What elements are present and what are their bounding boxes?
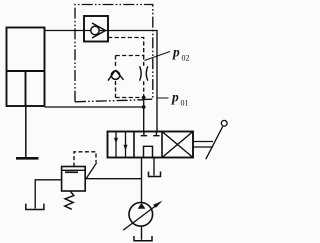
label p01 leader <box>157 97 169 99</box>
wire: relief valve outlet to tank <box>35 180 61 209</box>
pilot-operated check valve body <box>84 16 108 42</box>
pilot line (dashed) from check valve <box>108 38 144 56</box>
lever knob <box>221 120 227 126</box>
center position blocked port B <box>153 132 159 136</box>
directional valve body <box>108 132 194 158</box>
lever arm <box>206 127 223 160</box>
check valve branch line (dashed) <box>115 56 117 98</box>
piston rod <box>25 106 27 158</box>
lever fork <box>193 142 213 148</box>
wire: valve P port to pump <box>141 158 143 204</box>
relief valve inner bar <box>65 171 78 173</box>
wire: cylinder bottom port to node A <box>45 106 144 108</box>
load platform <box>16 157 39 160</box>
relief valve pilot arrow <box>86 163 96 179</box>
wire: valve T port to tank <box>153 158 155 176</box>
wire: relief valve inlet from pump line <box>85 178 141 180</box>
tank T1 <box>149 172 161 177</box>
enclosure bottom edge <box>75 100 144 102</box>
check valve ball <box>91 26 99 34</box>
cylinder body <box>7 28 45 107</box>
check valve C2 ball <box>111 71 119 79</box>
relief valve spring <box>65 191 74 210</box>
svg-text:02: 02 <box>182 54 190 63</box>
relief valve inner line <box>62 169 86 171</box>
wire: cylinder top port to check valve <box>45 30 85 32</box>
left position flow arrow 2 <box>125 132 127 158</box>
wire: flow control to valve port A <box>143 98 145 132</box>
label p01 <box>171 90 189 108</box>
pump variable arrow <box>123 205 157 230</box>
throttle orifice arcs <box>140 66 148 80</box>
svg-text:01: 01 <box>181 99 189 108</box>
svg-text:p: p <box>171 90 179 105</box>
cylinder plunger line <box>25 71 27 106</box>
tank T3 <box>26 204 44 210</box>
relief valve body <box>62 167 86 192</box>
pump output triangle <box>138 203 146 209</box>
center position blocked port A <box>141 132 147 136</box>
label p02 leader <box>145 52 171 61</box>
right position crossed arrows <box>162 132 193 158</box>
junction dot at flow control outlet <box>142 96 146 100</box>
enclosure: outer dash-dot box <box>75 5 153 102</box>
center position P-T bypass bridge <box>144 146 153 157</box>
throttle branch line (dashed) <box>143 56 145 98</box>
wire: check valve output <box>108 31 157 132</box>
variable pump circle <box>129 203 153 227</box>
tank T2 <box>134 236 152 241</box>
flow control enclosure top edge <box>116 55 144 57</box>
directional valve divider 1 <box>133 132 135 158</box>
check valve through line <box>84 30 108 32</box>
label p02 <box>172 45 190 63</box>
directional valve divider 2 <box>161 132 163 158</box>
check valve C2 seat <box>108 70 124 81</box>
cylinder piston line <box>7 70 45 72</box>
svg-text:p: p <box>172 45 180 60</box>
flow control enclosure bottom edge <box>116 97 144 99</box>
check valve seat <box>92 23 106 38</box>
relief valve pilot line (dashed) <box>74 152 96 167</box>
junction dot node A <box>142 105 146 109</box>
left position flow arrow 1 <box>115 132 117 158</box>
wire: pump suction <box>141 226 143 240</box>
